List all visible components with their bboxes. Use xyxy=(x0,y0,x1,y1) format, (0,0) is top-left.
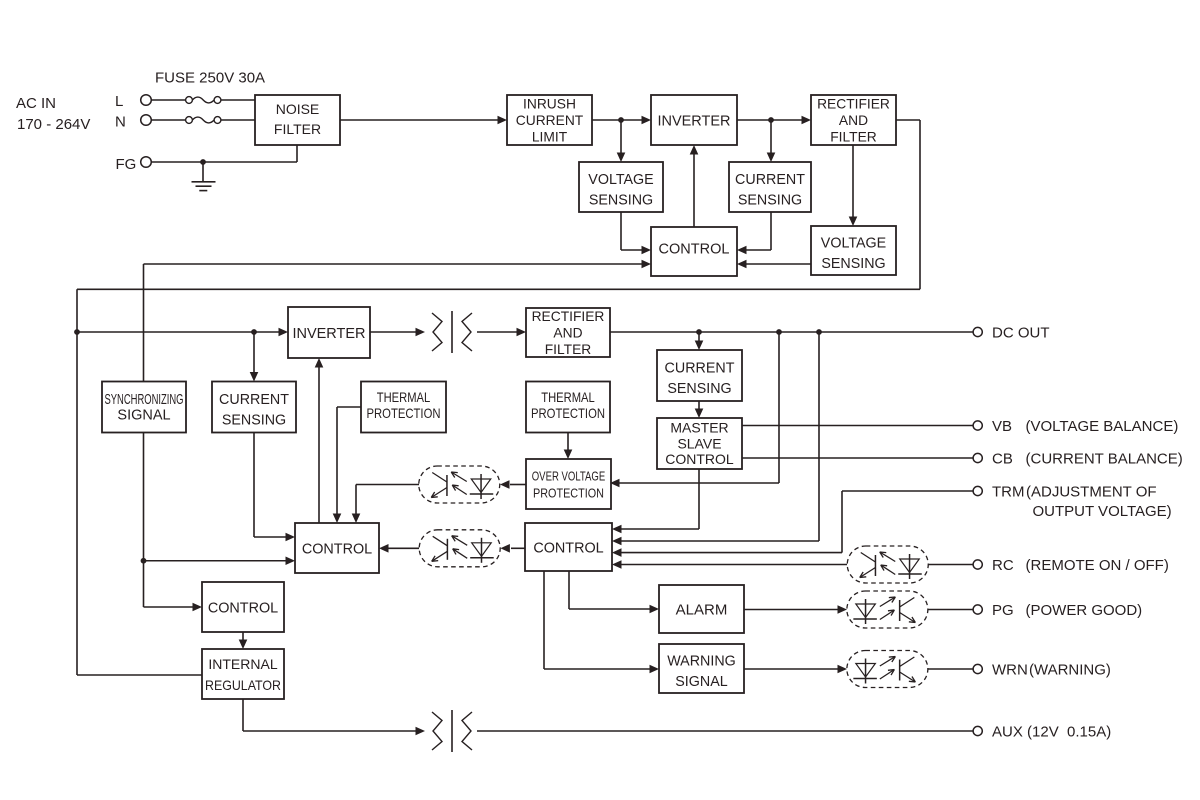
svg-text:VOLTAGE: VOLTAGE xyxy=(821,235,886,251)
svg-text:CURRENT: CURRENT xyxy=(516,113,584,128)
svg-text:PROTECTION: PROTECTION xyxy=(367,405,441,421)
svg-text:CONTROL: CONTROL xyxy=(665,451,734,467)
svg-text:(REMOTE ON / OFF): (REMOTE ON / OFF) xyxy=(1026,557,1169,574)
svg-text:REGULATOR: REGULATOR xyxy=(205,677,281,693)
svg-text:AC IN: AC IN xyxy=(16,95,56,112)
svg-text:SENSING: SENSING xyxy=(821,256,885,272)
svg-text:THERMAL: THERMAL xyxy=(377,389,431,405)
svg-text:RECTIFIER: RECTIFIER xyxy=(817,96,890,111)
svg-text:OUTPUT VOLTAGE): OUTPUT VOLTAGE) xyxy=(1033,503,1172,520)
svg-text:ALARM: ALARM xyxy=(676,602,728,619)
svg-text:INRUSH: INRUSH xyxy=(523,96,576,111)
svg-text:MASTER: MASTER xyxy=(670,419,728,435)
svg-text:FUSE 250V 30A: FUSE 250V 30A xyxy=(155,70,265,87)
svg-text:CURRENT: CURRENT xyxy=(735,172,805,188)
svg-text:L: L xyxy=(115,93,123,110)
svg-text:WARNING: WARNING xyxy=(667,653,736,669)
svg-text:PROTECTION: PROTECTION xyxy=(531,405,605,421)
svg-text:FILTER: FILTER xyxy=(545,342,592,357)
svg-text:CONTROL: CONTROL xyxy=(208,601,278,617)
svg-text:WRN: WRN xyxy=(992,661,1028,678)
svg-text:SENSING: SENSING xyxy=(738,192,802,208)
svg-text:CB: CB xyxy=(992,450,1013,467)
svg-text:NOISE: NOISE xyxy=(276,101,320,117)
svg-text:FILTER: FILTER xyxy=(274,121,321,137)
svg-text:CURRENT: CURRENT xyxy=(219,392,289,408)
svg-text:SYNCHRONIZING: SYNCHRONIZING xyxy=(105,392,184,408)
svg-text:RECTIFIER: RECTIFIER xyxy=(532,309,605,324)
svg-text:SIGNAL: SIGNAL xyxy=(117,408,170,424)
svg-text:INTERNAL: INTERNAL xyxy=(208,656,277,672)
svg-text:(VOLTAGE BALANCE): (VOLTAGE BALANCE) xyxy=(1026,418,1179,435)
svg-text:FILTER: FILTER xyxy=(830,129,877,144)
svg-text:(POWER GOOD): (POWER GOOD) xyxy=(1026,602,1143,619)
svg-text:(ADJUSTMENT OF: (ADJUSTMENT OF xyxy=(1026,483,1157,500)
svg-text:VB: VB xyxy=(992,418,1012,435)
svg-text:LIMIT: LIMIT xyxy=(532,129,568,144)
svg-text:DC OUT: DC OUT xyxy=(992,324,1050,341)
svg-text:VOLTAGE: VOLTAGE xyxy=(588,172,653,188)
svg-text:SENSING: SENSING xyxy=(222,412,286,428)
svg-text:CURRENT: CURRENT xyxy=(665,360,735,376)
svg-text:AND: AND xyxy=(839,113,868,128)
svg-text:SLAVE: SLAVE xyxy=(677,436,721,452)
svg-text:CONTROL: CONTROL xyxy=(533,541,603,557)
svg-text:SENSING: SENSING xyxy=(667,381,731,397)
svg-text:PROTECTION: PROTECTION xyxy=(533,486,604,501)
svg-text:AND: AND xyxy=(553,325,582,340)
svg-text:INVERTER: INVERTER xyxy=(292,326,365,342)
svg-text:CONTROL: CONTROL xyxy=(659,242,730,258)
svg-text:SIGNAL: SIGNAL xyxy=(675,674,727,690)
svg-text:(CURRENT BALANCE): (CURRENT BALANCE) xyxy=(1026,450,1183,467)
svg-text:RC: RC xyxy=(992,557,1014,574)
svg-text:CONTROL: CONTROL xyxy=(302,542,372,558)
svg-text:THERMAL: THERMAL xyxy=(541,389,595,405)
svg-text:INVERTER: INVERTER xyxy=(657,114,730,130)
svg-text:170 - 264V: 170 - 264V xyxy=(17,116,90,133)
svg-text:(WARNING): (WARNING) xyxy=(1029,661,1111,678)
svg-text:N: N xyxy=(115,114,126,131)
svg-text:AUX (12V 0.15A): AUX (12V 0.15A) xyxy=(992,723,1111,740)
svg-text:SENSING: SENSING xyxy=(589,192,653,208)
svg-text:OVER VOLTAGE: OVER VOLTAGE xyxy=(532,469,606,484)
svg-text:PG: PG xyxy=(992,602,1014,619)
svg-text:FG: FG xyxy=(116,156,137,173)
svg-text:TRM: TRM xyxy=(992,483,1025,500)
